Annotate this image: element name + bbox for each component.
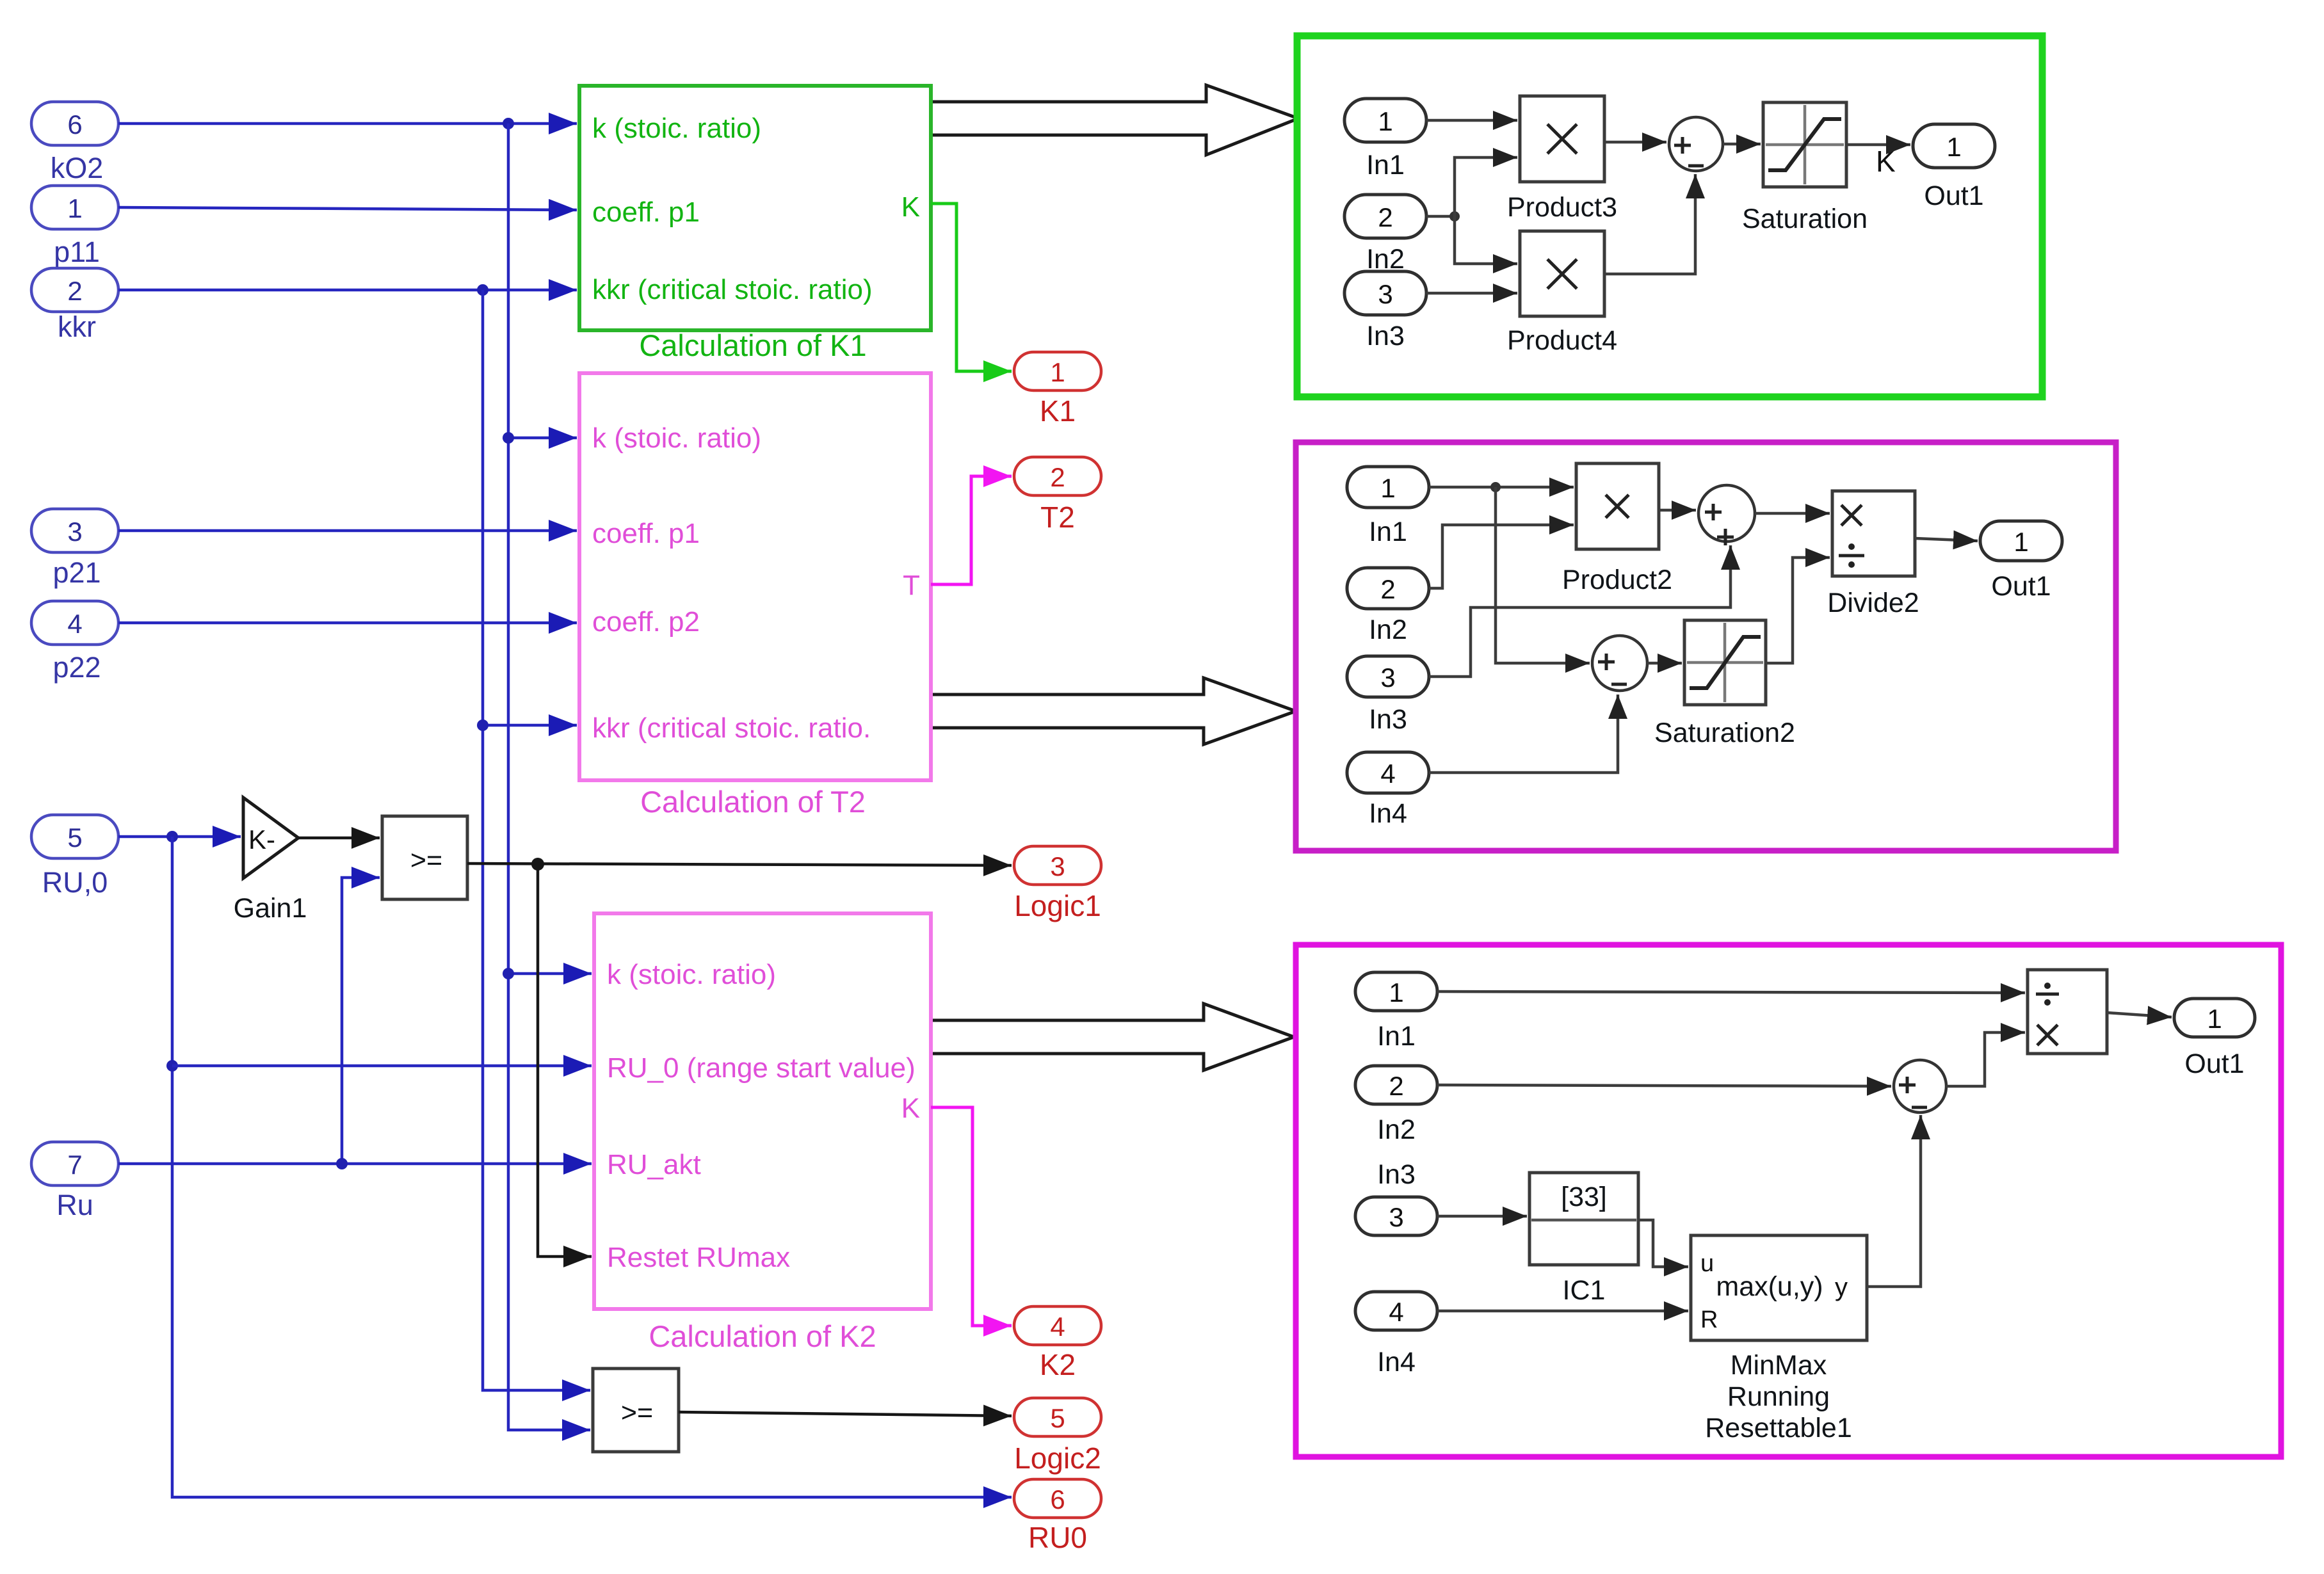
inport 3 p21 xyxy=(31,509,118,589)
wire p22 to T2.coeff.p2 xyxy=(118,622,577,625)
node Ru split xyxy=(336,1158,348,1169)
wire Product3 to sum xyxy=(1604,141,1666,144)
svg-text:Logic2: Logic2 xyxy=(1014,1441,1101,1475)
outport 3 Logic1 xyxy=(1014,846,1101,922)
inport 7 Ru xyxy=(31,1142,118,1221)
svg-text:3: 3 xyxy=(67,517,82,547)
wire kO2 to K1.k xyxy=(118,122,577,125)
svg-text:5: 5 xyxy=(67,823,82,853)
svg-text:Ru: Ru xyxy=(56,1189,93,1221)
svg-text:Product4: Product4 xyxy=(1507,325,1617,356)
detail subsystem frame K2 (magenta) xyxy=(1296,945,2281,1457)
inport In1 (K2 detail) xyxy=(1355,972,1437,1052)
svg-text:MinMax: MinMax xyxy=(1731,1350,1827,1381)
sum block +- (T2 detail) xyxy=(1592,636,1647,691)
svg-text:p21: p21 xyxy=(52,556,101,589)
svg-text:Calculation of T2: Calculation of T2 xyxy=(640,785,866,819)
wire Gain1 out to relop1 xyxy=(298,837,380,840)
inport In4 (T2 detail) xyxy=(1347,752,1429,829)
svg-text:6: 6 xyxy=(1050,1484,1065,1514)
wire In2 to Product3 lower xyxy=(1455,157,1517,216)
IC block IC1 [33] xyxy=(1529,1173,1638,1306)
svg-text:p22: p22 xyxy=(52,651,101,684)
sum block (K1 detail) xyxy=(1669,117,1723,171)
svg-text:Calculation of K2: Calculation of K2 xyxy=(649,1319,876,1353)
svg-text:Gain1: Gain1 xyxy=(234,893,307,924)
svg-text:2: 2 xyxy=(1380,574,1395,604)
svg-text:>=: >= xyxy=(621,1397,653,1428)
big hollow arrow K2 to detail xyxy=(933,1004,1294,1070)
outport Out1 (K2 detail) xyxy=(2174,999,2255,1079)
svg-text:T: T xyxy=(903,570,920,601)
product Product3 xyxy=(1507,96,1617,223)
svg-text:RU,0: RU,0 xyxy=(42,866,108,899)
svg-text:kkr (critical stoic. ratio): kkr (critical stoic. ratio) xyxy=(592,274,873,305)
sum block ++ (T2 detail) xyxy=(1699,485,1755,545)
wire Product4 to sum lower input xyxy=(1604,174,1695,274)
inport 1 p11 xyxy=(31,186,118,268)
svg-text:2: 2 xyxy=(67,276,82,306)
wire Ru bus up to relop1 lower input xyxy=(342,878,380,1164)
svg-text:1: 1 xyxy=(2013,527,2028,557)
wire Ru to K2.RU_akt xyxy=(118,1162,592,1166)
svg-text:T2: T2 xyxy=(1040,501,1075,534)
inport 2 kkr xyxy=(31,268,118,343)
svg-text:k (stoic. ratio): k (stoic. ratio) xyxy=(592,422,761,454)
node In2 split xyxy=(1449,211,1460,221)
node k-bus T2 tap xyxy=(503,432,514,444)
wire relop1 out to Logic1 xyxy=(467,863,1012,865)
relational operator 1 >= xyxy=(382,816,467,899)
svg-text:y: y xyxy=(1835,1273,1848,1301)
svg-text:coeff. p2: coeff. p2 xyxy=(592,606,700,638)
svg-text:Product2: Product2 xyxy=(1562,565,1672,595)
svg-text:Out1: Out1 xyxy=(1924,181,1983,211)
svg-text:>=: >= xyxy=(410,845,442,876)
outport 1 K1 xyxy=(1014,352,1101,428)
wire In3 to IC1 xyxy=(1437,1215,1527,1218)
wire RU,0 vertical down to RU0 outport xyxy=(172,837,1012,1497)
svg-text:K-: K- xyxy=(248,824,275,855)
svg-text:K2: K2 xyxy=(1040,1348,1076,1381)
node relop1 out split xyxy=(531,858,544,871)
svg-text:7: 7 xyxy=(67,1150,82,1180)
svg-text:Out1: Out1 xyxy=(2184,1048,2244,1079)
svg-text:5: 5 xyxy=(1050,1403,1065,1433)
wire Saturation2 to Divide2 lower input xyxy=(1766,558,1830,663)
wire Product2 to sum ++ xyxy=(1659,509,1696,512)
wire In1 down to sum +- xyxy=(1496,487,1590,663)
wire In1 to divide upper input xyxy=(1437,992,2025,993)
wire In2 to sum +- xyxy=(1437,1085,1891,1086)
inport In1 (T2 detail) xyxy=(1347,467,1429,547)
outport 5 Logic2 xyxy=(1014,1398,1101,1475)
product Product4 xyxy=(1507,231,1617,356)
wire k bus to K2.k xyxy=(508,972,592,976)
gain Gain1 xyxy=(234,798,307,924)
svg-text:RU_0 (range start value): RU_0 (range start value) xyxy=(607,1052,916,1084)
svg-text:kO2: kO2 xyxy=(51,152,104,184)
svg-text:3: 3 xyxy=(1380,663,1395,693)
svg-text:K: K xyxy=(1876,145,1896,178)
svg-text:4: 4 xyxy=(1389,1297,1403,1327)
svg-text:Saturation: Saturation xyxy=(1742,204,1868,234)
saturation Saturation2 xyxy=(1654,620,1795,748)
outport 4 K2 xyxy=(1014,1306,1101,1381)
svg-text:In2: In2 xyxy=(1369,614,1407,645)
outport Out1 (T2 detail) xyxy=(1980,521,2062,602)
wire k bus to T2.k xyxy=(508,437,577,440)
svg-text:p11: p11 xyxy=(54,236,100,268)
svg-text:K1: K1 xyxy=(1040,394,1076,428)
svg-text:Running: Running xyxy=(1727,1381,1830,1412)
svg-text:Product3: Product3 xyxy=(1507,192,1617,223)
wire In3 to Product4 xyxy=(1426,292,1517,295)
wire kkr bus to T2.kkr xyxy=(483,724,577,727)
subsystem Calculation of K2 xyxy=(594,913,931,1353)
svg-text:4: 4 xyxy=(1380,759,1395,789)
wire p21 to T2.coeff.p1 xyxy=(118,529,577,533)
svg-text:2: 2 xyxy=(1050,462,1065,492)
node k-bus tap on kO2 wire xyxy=(503,118,514,129)
inport 5 RU,0 xyxy=(31,815,118,899)
saturation Saturation xyxy=(1742,102,1868,234)
wire T2.T to outport T2 xyxy=(931,476,1012,584)
node RU,0 split xyxy=(166,831,178,842)
svg-text:1: 1 xyxy=(1050,357,1065,387)
svg-text:2: 2 xyxy=(1389,1071,1403,1101)
svg-text:In3: In3 xyxy=(1369,704,1407,735)
inport 4 p22 xyxy=(31,601,118,684)
svg-text:Out1: Out1 xyxy=(1991,571,2051,602)
inport In2 (T2 detail) xyxy=(1347,568,1429,645)
svg-text:K: K xyxy=(901,191,920,223)
subsystem Calculation of T2 xyxy=(579,373,931,819)
wire kkr to K1.kkr xyxy=(118,289,577,292)
svg-text:Resettable1: Resettable1 xyxy=(1705,1413,1852,1443)
svg-text:Saturation2: Saturation2 xyxy=(1654,718,1795,748)
svg-text:6: 6 xyxy=(67,109,82,140)
svg-text:3: 3 xyxy=(1378,279,1392,309)
divide Divide2 xyxy=(1827,491,1919,618)
wire Saturation to Out1 xyxy=(1846,143,1910,147)
wire K2.K to outport K2 xyxy=(931,1107,1012,1326)
wire RU,0 branch to K2.RU_0 xyxy=(172,1064,592,1068)
wire sum +- to Saturation2 xyxy=(1647,662,1682,665)
svg-text:kkr: kkr xyxy=(58,310,96,343)
svg-text:In2: In2 xyxy=(1377,1114,1416,1145)
node k-bus K2 tap xyxy=(503,968,514,979)
svg-text:In3: In3 xyxy=(1377,1159,1416,1190)
svg-text:Divide2: Divide2 xyxy=(1827,588,1919,618)
wire sum to Saturation xyxy=(1723,143,1761,146)
svg-text:In1: In1 xyxy=(1369,517,1407,547)
svg-text:u: u xyxy=(1700,1250,1714,1277)
wire kkr bus vertical to relop2 upper input xyxy=(483,290,590,1390)
svg-text:1: 1 xyxy=(1389,977,1403,1008)
inport In3 (T2 detail) xyxy=(1347,656,1429,735)
svg-text:max(u,y): max(u,y) xyxy=(1716,1271,1823,1302)
wire In1 to Product2 xyxy=(1429,486,1574,489)
svg-text:kkr (critical stoic. ratio.: kkr (critical stoic. ratio. xyxy=(592,712,871,744)
wire sum to divide lower input xyxy=(1946,1032,2025,1086)
svg-text:In1: In1 xyxy=(1377,1021,1416,1052)
svg-text:k (stoic. ratio): k (stoic. ratio) xyxy=(607,959,776,990)
outport Out1 (K1 detail) xyxy=(1913,124,1995,211)
wire p11 to K1.coeff.p1 xyxy=(118,207,577,210)
wire In2 split xyxy=(1426,215,1455,218)
svg-text:R: R xyxy=(1700,1306,1718,1333)
svg-text:K: K xyxy=(901,1093,920,1124)
inport In3 (K1 detail) xyxy=(1344,271,1426,351)
svg-text:IC1: IC1 xyxy=(1563,1275,1606,1306)
outport 2 T2 xyxy=(1014,457,1101,534)
big hollow arrow T2 to detail xyxy=(933,678,1296,744)
inport In2 (K2 detail) xyxy=(1355,1066,1437,1145)
svg-text:k (stoic. ratio): k (stoic. ratio) xyxy=(592,113,761,144)
sum block +- (K2 detail) xyxy=(1894,1060,1946,1112)
wire RU,0 to Gain1 xyxy=(118,835,241,839)
divide block (K2 detail) xyxy=(2028,970,2107,1054)
svg-text:1: 1 xyxy=(1946,132,1961,162)
svg-text:1: 1 xyxy=(67,193,82,223)
inport In2 (K1 detail) xyxy=(1344,195,1426,275)
subsystem Calculation of K1 xyxy=(579,86,931,362)
svg-text:In3: In3 xyxy=(1366,321,1405,351)
svg-text:2: 2 xyxy=(1378,202,1392,232)
wire relop2 out to Logic2 xyxy=(679,1412,1012,1416)
svg-text:3: 3 xyxy=(1389,1202,1403,1232)
svg-text:4: 4 xyxy=(1050,1312,1065,1342)
wire In1 to Product3 xyxy=(1426,119,1517,122)
wire k bus vertical to relop2 lower input xyxy=(508,124,590,1430)
node kkr-bus T2 tap xyxy=(477,719,488,731)
wire In4 to MinMax R xyxy=(1437,1310,1688,1313)
svg-text:RU0: RU0 xyxy=(1028,1521,1087,1554)
svg-text:Logic1: Logic1 xyxy=(1014,889,1101,922)
svg-text:In4: In4 xyxy=(1377,1347,1416,1377)
svg-text:RU_akt: RU_akt xyxy=(607,1149,701,1180)
svg-text:1: 1 xyxy=(1378,106,1392,136)
inport In1 (K1 detail) xyxy=(1344,99,1426,181)
inport In4 (K2 detail) xyxy=(1355,1292,1437,1377)
svg-text:1: 1 xyxy=(1380,473,1395,503)
svg-text:In4: In4 xyxy=(1369,798,1407,829)
relational operator 2 >= xyxy=(593,1369,679,1452)
svg-text:Calculation of K1: Calculation of K1 xyxy=(639,328,866,362)
wire In2 to Product4 upper xyxy=(1455,216,1517,264)
wire relop1 out down to K2.Reset xyxy=(538,864,592,1257)
node In1 split xyxy=(1490,482,1501,492)
wire Divide2 to Out1 xyxy=(1915,538,1978,541)
wire IC1 to MinMax u xyxy=(1638,1220,1688,1267)
wire In3 to sum ++ lower input xyxy=(1429,545,1731,677)
wire In2 to Product2 lower xyxy=(1429,525,1574,588)
product Product2 xyxy=(1562,463,1672,595)
minmax MinMax Running Resettable1 xyxy=(1691,1235,1867,1443)
wire MinMax y to sum lower input xyxy=(1867,1115,1921,1287)
inport In3 (K2 detail) xyxy=(1355,1159,1437,1235)
svg-text:4: 4 xyxy=(67,609,82,639)
svg-text:In1: In1 xyxy=(1366,150,1405,181)
node RU,0 branch to K2 xyxy=(166,1060,178,1072)
wire In4 to sum +- lower input xyxy=(1429,695,1618,773)
outport 6 RU0 xyxy=(1014,1479,1101,1554)
svg-text:1: 1 xyxy=(2207,1004,2222,1034)
wire divide to Out1 xyxy=(2107,1013,2172,1017)
wire sum ++ to Divide2 xyxy=(1755,512,1830,515)
detail subsystem frame T2 (magenta) xyxy=(1296,442,2116,851)
inport 6 kO2 xyxy=(31,102,118,184)
svg-text:3: 3 xyxy=(1050,851,1065,881)
detail subsystem frame K1 (green) xyxy=(1297,36,2042,397)
svg-text:coeff. p1: coeff. p1 xyxy=(592,197,700,228)
svg-text:[33]: [33] xyxy=(1561,1182,1607,1212)
svg-text:coeff. p1: coeff. p1 xyxy=(592,518,700,549)
node kkr-bus tap xyxy=(477,284,488,296)
wire K1.K to outport K1 xyxy=(931,204,1012,371)
svg-text:Restet RUmax: Restet RUmax xyxy=(607,1242,790,1273)
big hollow arrow K1 to detail xyxy=(933,85,1298,155)
